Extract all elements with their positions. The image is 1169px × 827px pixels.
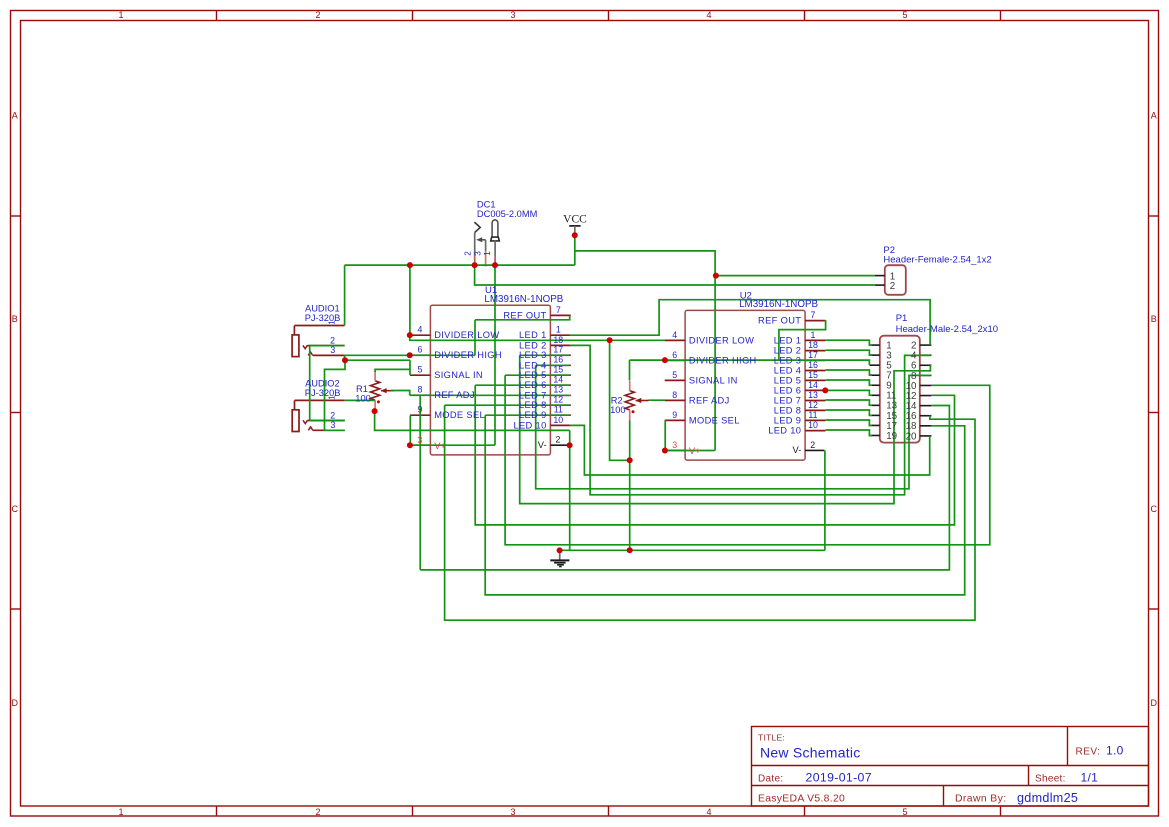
svg-text:LED 2: LED 2	[519, 340, 547, 350]
svg-text:A: A	[12, 111, 18, 121]
svg-text:2: 2	[556, 435, 561, 445]
svg-text:8: 8	[672, 390, 677, 400]
svg-text:16: 16	[553, 355, 563, 365]
svg-text:18: 18	[553, 335, 563, 345]
svg-text:1: 1	[118, 807, 123, 817]
svg-text:SIGNAL IN: SIGNAL IN	[689, 375, 738, 385]
svg-text:4: 4	[706, 807, 711, 817]
svg-text:5: 5	[902, 807, 907, 817]
svg-text:8: 8	[418, 385, 423, 395]
svg-text:DIVIDER HIGH: DIVIDER HIGH	[689, 355, 757, 365]
svg-text:14: 14	[553, 375, 563, 385]
svg-text:13: 13	[553, 385, 563, 395]
svg-text:C: C	[1150, 504, 1157, 514]
svg-text:14: 14	[808, 380, 818, 390]
svg-text:3: 3	[510, 10, 515, 20]
svg-text:LED 2: LED 2	[774, 346, 802, 356]
svg-text:D: D	[1150, 698, 1157, 708]
svg-text:2: 2	[464, 251, 473, 256]
svg-text:15: 15	[808, 370, 818, 380]
svg-text:1.0: 1.0	[1106, 744, 1124, 758]
svg-text:DIVIDER HIGH: DIVIDER HIGH	[434, 350, 502, 360]
svg-text:3: 3	[330, 345, 335, 355]
svg-text:1: 1	[483, 251, 492, 256]
svg-text:11: 11	[808, 410, 817, 420]
svg-text:R2: R2	[611, 395, 623, 405]
svg-text:LED 7: LED 7	[774, 396, 802, 406]
svg-text:1/1: 1/1	[1081, 771, 1099, 785]
svg-text:New Schematic: New Schematic	[760, 744, 861, 760]
svg-text:REF OUT: REF OUT	[758, 316, 801, 326]
svg-text:REF OUT: REF OUT	[503, 310, 546, 320]
svg-text:LED 5: LED 5	[774, 375, 802, 385]
svg-text:REF ADJ: REF ADJ	[689, 395, 730, 405]
svg-text:REV:: REV:	[1076, 747, 1101, 758]
svg-text:2: 2	[810, 440, 815, 450]
svg-text:V-: V-	[538, 440, 547, 450]
svg-text:D: D	[11, 698, 18, 708]
svg-text:Sheet:: Sheet:	[1035, 773, 1066, 784]
svg-text:100: 100	[355, 394, 371, 404]
svg-text:3: 3	[418, 435, 423, 445]
svg-text:4: 4	[418, 325, 423, 335]
svg-text:LED 4: LED 4	[774, 366, 802, 376]
svg-text:10: 10	[553, 415, 563, 425]
svg-text:MODE SEL: MODE SEL	[689, 415, 740, 425]
svg-text:EasyEDA V5.8.20: EasyEDA V5.8.20	[758, 793, 845, 804]
svg-text:Header-Female-2.54_1x2: Header-Female-2.54_1x2	[883, 255, 991, 266]
svg-text:20: 20	[906, 431, 917, 442]
svg-text:TITLE:: TITLE:	[758, 733, 785, 743]
svg-text:10: 10	[808, 420, 818, 430]
svg-text:LED 4: LED 4	[519, 360, 547, 370]
svg-text:7: 7	[811, 310, 816, 320]
svg-text:VCC: VCC	[563, 214, 587, 226]
svg-text:LM3916N-1NOPB: LM3916N-1NOPB	[484, 294, 563, 305]
svg-text:C: C	[11, 504, 18, 514]
svg-text:2: 2	[315, 807, 320, 817]
svg-text:LED 5: LED 5	[519, 370, 547, 380]
svg-text:2: 2	[330, 335, 335, 345]
svg-text:3: 3	[473, 251, 482, 256]
svg-text:LM3916N-1NOPB: LM3916N-1NOPB	[739, 299, 818, 310]
svg-text:4: 4	[706, 10, 711, 20]
svg-text:LED 1: LED 1	[519, 330, 547, 340]
svg-text:2: 2	[315, 10, 320, 20]
svg-text:7: 7	[556, 305, 561, 315]
svg-text:1: 1	[328, 395, 337, 400]
svg-text:4: 4	[672, 330, 677, 340]
svg-text:16: 16	[808, 360, 818, 370]
svg-text:9: 9	[418, 405, 423, 415]
svg-text:MODE SEL: MODE SEL	[434, 410, 485, 420]
svg-text:DC005-2.0MM: DC005-2.0MM	[477, 209, 537, 219]
svg-text:LED 10: LED 10	[513, 420, 546, 430]
svg-text:LED 8: LED 8	[774, 405, 802, 415]
svg-text:LED 1: LED 1	[774, 335, 802, 345]
svg-text:Drawn By:: Drawn By:	[955, 793, 1007, 804]
svg-text:2: 2	[890, 281, 895, 292]
svg-text:18: 18	[808, 340, 818, 350]
svg-text:3: 3	[672, 440, 677, 450]
svg-text:1: 1	[328, 320, 337, 325]
svg-text:DIVIDER LOW: DIVIDER LOW	[689, 335, 754, 345]
svg-text:15: 15	[553, 365, 563, 375]
svg-text:V+: V+	[689, 446, 701, 456]
svg-text:13: 13	[808, 390, 818, 400]
svg-text:17: 17	[808, 350, 818, 360]
svg-text:1: 1	[118, 10, 123, 20]
svg-text:R1: R1	[356, 384, 368, 394]
svg-text:V-: V-	[793, 445, 802, 455]
svg-text:1: 1	[556, 325, 561, 335]
svg-text:3: 3	[510, 807, 515, 817]
svg-text:B: B	[1151, 314, 1157, 324]
svg-text:LED 3: LED 3	[519, 350, 547, 360]
svg-text:LED 8: LED 8	[519, 400, 547, 410]
svg-text:P1: P1	[896, 313, 908, 324]
svg-text:6: 6	[672, 350, 677, 360]
svg-text:11: 11	[554, 405, 563, 415]
svg-text:17: 17	[553, 345, 563, 355]
svg-text:REF ADJ: REF ADJ	[434, 390, 475, 400]
svg-text:gdmdlm25: gdmdlm25	[1017, 791, 1078, 805]
svg-text:3: 3	[330, 420, 335, 430]
svg-text:9: 9	[672, 410, 677, 420]
svg-text:Header-Male-2.54_2x10: Header-Male-2.54_2x10	[896, 324, 998, 335]
svg-text:100: 100	[610, 405, 626, 415]
svg-text:DIVIDER LOW: DIVIDER LOW	[434, 330, 499, 340]
svg-text:LED 3: LED 3	[774, 355, 802, 365]
svg-text:LED 9: LED 9	[519, 410, 547, 420]
svg-text:12: 12	[553, 395, 563, 405]
svg-text:A: A	[1151, 111, 1157, 121]
svg-text:5: 5	[902, 10, 907, 20]
svg-text:B: B	[12, 314, 18, 324]
svg-text:5: 5	[418, 365, 423, 375]
svg-text:1: 1	[811, 330, 816, 340]
svg-text:LED 10: LED 10	[768, 426, 801, 436]
svg-text:2: 2	[330, 410, 335, 420]
svg-text:Date:: Date:	[758, 773, 783, 784]
svg-text:2019-01-07: 2019-01-07	[806, 771, 872, 785]
svg-text:V+: V+	[434, 441, 446, 451]
svg-text:LED 6: LED 6	[519, 380, 547, 390]
svg-text:5: 5	[672, 370, 677, 380]
svg-text:SIGNAL IN: SIGNAL IN	[434, 370, 483, 380]
svg-text:LED 9: LED 9	[774, 415, 802, 425]
svg-text:12: 12	[808, 400, 818, 410]
svg-text:6: 6	[418, 345, 423, 355]
svg-text:19: 19	[886, 431, 897, 442]
svg-text:LED 6: LED 6	[774, 385, 802, 395]
svg-text:LED 7: LED 7	[519, 390, 547, 400]
